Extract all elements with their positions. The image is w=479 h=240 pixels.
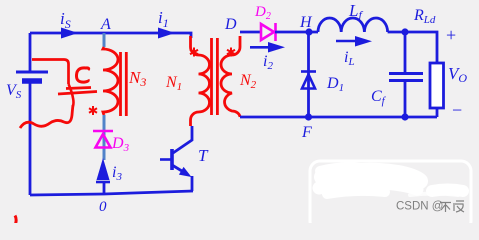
node after inductor dot [401,28,408,35]
node at Cf bottom dot [401,113,408,120]
diode D1 [301,72,316,89]
watermark card outline [310,161,471,231]
red annotation: capacitor-like dashes [58,88,97,95]
winding N3 [103,47,118,115]
svg-text:T: T [198,146,209,165]
wire: secondary bottom rail [240,116,437,119]
arrow iL annotation [336,40,357,43]
transistor T base lead [160,158,172,161]
watermark scribble blob [319,167,463,195]
svg-text:D: D [224,16,237,33]
svg-text:+: + [446,25,456,45]
wire: D2 to H to inductor [275,31,318,34]
red annotation: elbow from source to snubber mark [32,60,69,85]
winding N2 secondary [221,36,240,117]
wire: left vertical lower [29,81,32,195]
wire: steel-blue stub from A down to N3 winding [103,33,106,47]
red annotation: connector stroke down [69,84,74,106]
core of transformer [212,38,218,115]
svg-text:CSDN @: CSDN @ [396,201,443,213]
watermark CJK glyph boxes [440,201,464,212]
arrow iS on top wire [61,28,78,39]
core of N3 [121,52,127,116]
capacitor Cf lower lead [404,82,407,117]
svg-text:H: H [299,14,313,31]
polarity dot star N3 [89,106,97,115]
resistor bottom lead [436,108,439,117]
diode D1 branch vertical [307,32,310,117]
svg-text:−: − [452,100,462,120]
diode D2 [261,23,276,41]
source VS battery plates [16,71,48,74]
arrow i1 on top wire [158,28,175,39]
transistor T base bar [170,149,174,170]
wire: inductor to RLd corner [388,32,437,63]
arrow i3 (upward) [97,158,110,180]
svg-text:F: F [301,124,312,141]
inductor Lf [318,18,388,32]
svg-text:A: A [100,16,111,33]
diode D3 [93,131,113,148]
wire: top-left horizontal from source corner to node A to N1 [30,33,191,38]
node F dot [305,113,312,120]
capacitor Cf plates [389,72,423,75]
transistor T collector lead [173,126,192,153]
red annotation: bottom-left tick [15,216,16,225]
polarity star N1 [190,48,198,57]
winding N1 primary [191,36,210,126]
transistor T emitter with arrow [172,165,186,174]
node H dot [305,28,312,35]
wire: bottom-left horizontal (node 0 rail) [30,191,193,195]
red annotation: wavy line [20,105,73,128]
wire: left vertical upper (source top lead) [29,33,32,72]
polarity star N2 [227,48,235,57]
wire: steel-blue from N3 bottom down through D3 [103,115,106,160]
arrow i2 annotation [250,46,270,49]
capacitor Cf branch vertical upper [404,32,407,72]
resistor RLd body [430,63,444,108]
wire: secondary top from N2 to D2 [240,31,261,34]
svg-text:0: 0 [99,199,107,215]
red annotation: small c curl [76,68,88,82]
